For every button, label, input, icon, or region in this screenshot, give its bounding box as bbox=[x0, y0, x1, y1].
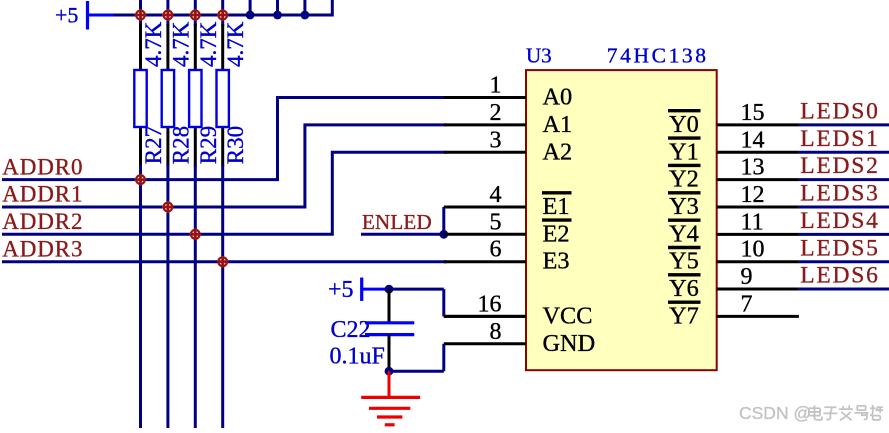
svg-text:4.7K: 4.7K bbox=[196, 21, 221, 67]
svg-text:0.1uF: 0.1uF bbox=[330, 344, 385, 370]
svg-text:9: 9 bbox=[741, 264, 753, 290]
svg-text:4.7K: 4.7K bbox=[223, 21, 248, 67]
svg-text:ADDR1: ADDR1 bbox=[2, 182, 83, 207]
svg-text:+5: +5 bbox=[328, 277, 354, 303]
svg-text:6: 6 bbox=[490, 237, 502, 263]
svg-text:LEDS6: LEDS6 bbox=[800, 263, 880, 289]
svg-text:R27: R27 bbox=[141, 126, 166, 164]
svg-text:Y6: Y6 bbox=[669, 275, 699, 302]
svg-text:VCC: VCC bbox=[543, 302, 593, 329]
svg-text:GND: GND bbox=[543, 330, 596, 357]
svg-text:U3: U3 bbox=[526, 44, 552, 68]
svg-text:8: 8 bbox=[490, 319, 502, 345]
svg-text:Y3: Y3 bbox=[669, 193, 699, 220]
svg-text:LEDS0: LEDS0 bbox=[800, 99, 880, 125]
svg-text:74HC138: 74HC138 bbox=[607, 44, 709, 68]
svg-text:14: 14 bbox=[741, 127, 765, 153]
svg-text:3: 3 bbox=[490, 127, 502, 153]
svg-text:7: 7 bbox=[741, 291, 753, 317]
svg-text:A2: A2 bbox=[543, 138, 573, 165]
svg-text:1: 1 bbox=[490, 73, 502, 99]
svg-text:A1: A1 bbox=[543, 111, 573, 138]
svg-text:4.7K: 4.7K bbox=[141, 21, 166, 67]
svg-text:E3: E3 bbox=[543, 248, 570, 275]
svg-text:+5: +5 bbox=[55, 3, 78, 28]
svg-text:E2: E2 bbox=[543, 220, 570, 247]
svg-text:13: 13 bbox=[741, 155, 765, 181]
svg-text:10: 10 bbox=[741, 237, 765, 263]
svg-text:15: 15 bbox=[741, 100, 765, 126]
svg-text:LEDS4: LEDS4 bbox=[800, 208, 880, 234]
svg-text:C22: C22 bbox=[331, 317, 371, 343]
svg-text:ADDR2: ADDR2 bbox=[2, 209, 83, 234]
svg-text:16: 16 bbox=[478, 291, 502, 317]
svg-text:11: 11 bbox=[741, 209, 764, 235]
svg-text:LEDS3: LEDS3 bbox=[800, 181, 880, 207]
svg-text:12: 12 bbox=[741, 182, 765, 208]
svg-text:LEDS2: LEDS2 bbox=[800, 153, 880, 179]
svg-text:R29: R29 bbox=[196, 126, 221, 164]
svg-text:R28: R28 bbox=[168, 126, 193, 164]
svg-text:R30: R30 bbox=[223, 126, 248, 164]
svg-text:2: 2 bbox=[490, 100, 502, 126]
svg-text:LEDS5: LEDS5 bbox=[800, 235, 880, 261]
svg-text:LEDS1: LEDS1 bbox=[800, 126, 880, 152]
svg-text:4.7K: 4.7K bbox=[168, 21, 193, 67]
svg-text:CSDN @: CSDN @ bbox=[739, 403, 811, 423]
svg-text:ADDR3: ADDR3 bbox=[2, 236, 83, 261]
svg-text:Y1: Y1 bbox=[669, 138, 699, 165]
svg-text:5: 5 bbox=[490, 209, 502, 235]
svg-text:Y2: Y2 bbox=[669, 166, 699, 193]
svg-text:Y0: Y0 bbox=[669, 111, 699, 138]
svg-text:E1: E1 bbox=[543, 193, 570, 220]
svg-text:Y4: Y4 bbox=[669, 220, 699, 247]
svg-text:ADDR0: ADDR0 bbox=[2, 154, 83, 179]
svg-text:Y7: Y7 bbox=[669, 302, 699, 329]
svg-text:Y5: Y5 bbox=[669, 248, 699, 275]
svg-text:A0: A0 bbox=[543, 84, 573, 111]
svg-text:ENLED: ENLED bbox=[362, 210, 432, 234]
svg-text:4: 4 bbox=[490, 182, 502, 208]
